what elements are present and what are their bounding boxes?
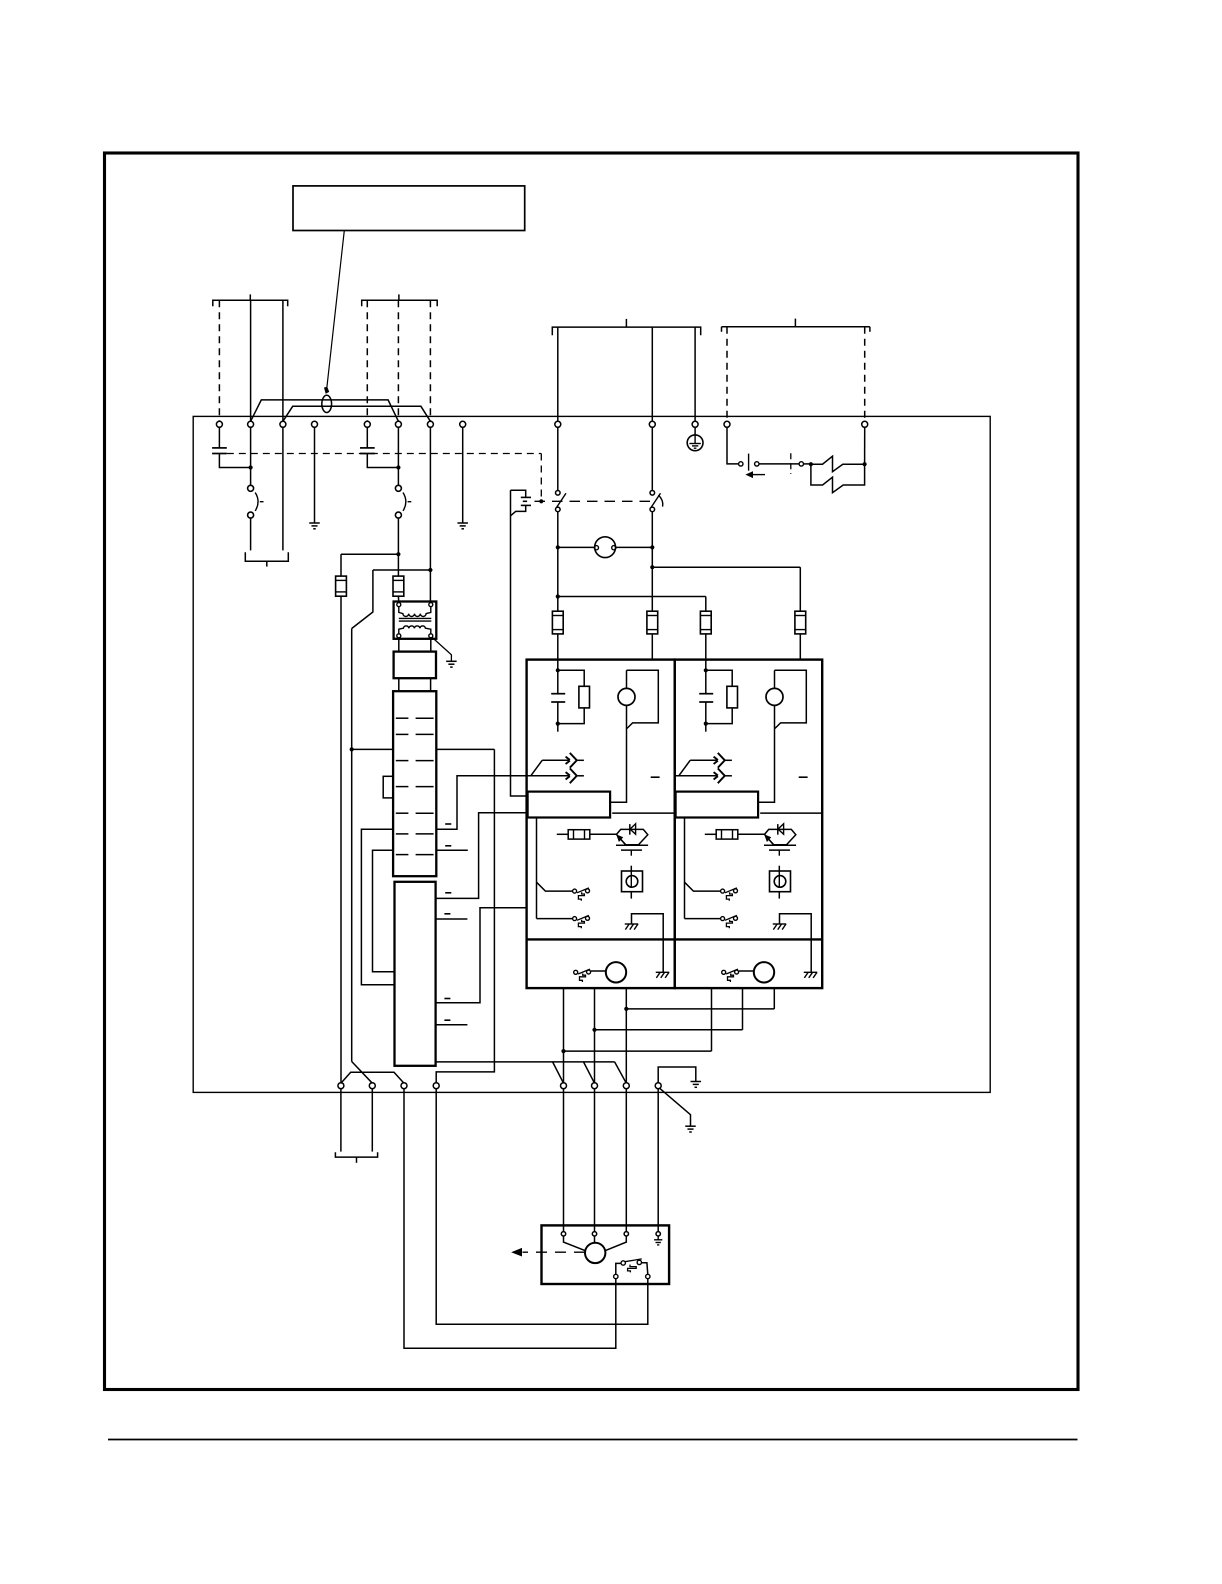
unit2 igniter fuse xyxy=(705,833,716,835)
loop wire A1 to unit edge xyxy=(436,908,527,1003)
flow switch FS xyxy=(739,462,743,466)
unit2 input node xyxy=(704,668,708,672)
connector bracket P2 (dashed unit) xyxy=(362,300,438,306)
wire to remote switch b xyxy=(436,1089,648,1325)
riser diagonal to terminal xyxy=(352,1062,373,1084)
wire P3-2 to switch xyxy=(651,427,653,490)
thermostat bulb B1 xyxy=(218,427,220,448)
unit2 capacitor C2 xyxy=(705,670,707,693)
wire P1-3 xyxy=(282,300,284,421)
harness board-to-remote xyxy=(437,1061,615,1063)
unit1 terminal strip xyxy=(528,792,611,818)
link terminal xyxy=(799,462,803,466)
node J7 xyxy=(556,545,560,549)
node J13 xyxy=(624,1007,628,1011)
control-box enclosure outline xyxy=(193,416,990,1092)
heater element EL bottom path xyxy=(811,464,865,493)
heater unit 2 box xyxy=(675,660,823,989)
harness wire B xyxy=(283,406,431,421)
bus wire H3 xyxy=(564,1050,712,1052)
wire P3-1 to switch xyxy=(557,427,559,490)
earth stub E1 xyxy=(314,427,316,523)
wire F1 down to terminal xyxy=(340,596,342,1082)
wire to remote switch a xyxy=(404,1089,616,1349)
unit2 igniter plates xyxy=(764,844,796,846)
switch S2 (contactor left) xyxy=(395,485,401,491)
remote earth xyxy=(657,1236,659,1240)
unit2 connector arrow lower xyxy=(675,775,718,777)
unit1 resistor R1 xyxy=(558,670,584,686)
connector bracket compressor xyxy=(245,552,288,561)
unit2 strip link wire xyxy=(760,812,822,814)
X1 side tab xyxy=(383,776,393,798)
branch J8 to fuse F5 xyxy=(558,596,706,598)
unit2 fan motor M2 xyxy=(754,962,774,982)
capillary tick (dashed) xyxy=(790,453,792,474)
wire P3-2 xyxy=(651,327,653,421)
unit1 lamp loop xyxy=(626,670,628,688)
wire EL to terminal xyxy=(864,427,866,464)
wire P2-2 (dashed) xyxy=(397,300,399,421)
stub wire X1-s xyxy=(436,849,468,851)
switch S3 (blade) xyxy=(556,491,561,496)
T1 primary winding xyxy=(399,607,431,617)
riser wire left xyxy=(351,629,353,1062)
tick mark t5 xyxy=(445,892,451,894)
node J2 xyxy=(396,465,400,469)
unit2 exit wires xyxy=(711,988,713,1051)
unit1 chassis ground lower xyxy=(656,971,670,973)
unit2 ground link xyxy=(780,914,812,973)
wire P1-2 xyxy=(250,300,252,421)
capillary dashed line D1 xyxy=(227,453,542,455)
sensor plug symbol xyxy=(511,490,526,497)
unit1 connector arrow lower xyxy=(527,775,570,777)
remote switch S5 xyxy=(621,1261,625,1265)
unit1 ground link xyxy=(632,914,664,973)
fuse F6 xyxy=(795,611,806,634)
wire P4-1 (dashed) xyxy=(726,327,728,422)
pump motor P xyxy=(595,537,616,558)
stub wire A1-s2 xyxy=(436,918,468,920)
wire F3 to unit1 xyxy=(557,634,559,660)
wires to compressor connector xyxy=(340,1089,342,1152)
wire P2-3 (dashed) xyxy=(429,300,431,421)
harness left pair xyxy=(341,1072,404,1083)
direction dashed arrow xyxy=(523,1251,586,1253)
tick mark t1 xyxy=(445,845,451,847)
node J8 xyxy=(556,594,560,598)
unit2 indicator lamp H2 xyxy=(766,688,783,705)
node J11 xyxy=(809,462,813,466)
unit1 exit wires xyxy=(563,988,565,1083)
unit2 igniter electrode xyxy=(765,829,796,844)
unit1 gas valve Y1 xyxy=(630,866,632,871)
wire S2 down xyxy=(397,518,399,576)
riser R2 xyxy=(436,749,494,1082)
unit2 gas valve Y2 xyxy=(778,866,780,871)
heater element EL top path xyxy=(811,456,865,472)
node J5 xyxy=(350,747,354,751)
wire F6 to unit2 xyxy=(799,634,801,660)
loop wire LU xyxy=(361,829,394,985)
unit2 chassis ground upper xyxy=(773,923,787,925)
control board A1 box xyxy=(395,882,436,1066)
unit2 control feed wire xyxy=(684,818,686,919)
unit1 fan wire xyxy=(591,970,606,972)
unit1 fan motor M1 xyxy=(606,962,626,982)
unit2 igniter diode xyxy=(777,824,779,835)
unit1 lamp down wire xyxy=(610,705,626,802)
unit1 limit switch upper xyxy=(573,889,577,893)
wire plug to unit strip xyxy=(511,490,527,796)
unit1 lower node xyxy=(556,722,560,726)
bus wire H2 xyxy=(595,1029,743,1031)
remote motor M3 xyxy=(585,1243,605,1263)
T1 core xyxy=(399,617,432,619)
node J9 xyxy=(650,545,654,549)
wire F2 to transformer xyxy=(397,596,399,602)
wire S4 down xyxy=(651,512,653,612)
connector bracket P3 (solid) xyxy=(552,327,700,335)
wire X1 to plasma loop xyxy=(436,776,526,829)
terminal strip X1 box xyxy=(393,691,436,876)
loop wire LV xyxy=(373,850,395,972)
fuse F1 xyxy=(336,576,347,596)
protective earth symbol PE xyxy=(694,427,696,435)
wire P2-1 (dashed) xyxy=(366,300,368,421)
unit2 limit switch upper xyxy=(721,889,725,893)
unit1 igniter plates xyxy=(616,844,648,846)
input terminals row (top edge) xyxy=(216,421,222,427)
earth wire G2 xyxy=(660,1088,691,1126)
switch S4 (blade) xyxy=(650,491,655,496)
callout box (empty label) xyxy=(293,186,525,231)
branch J4 left xyxy=(373,569,431,571)
branch J10 to fuse F6 xyxy=(652,566,800,568)
T1 secondary leads down xyxy=(398,638,400,652)
wire F4 to unit1 xyxy=(651,634,653,660)
tick mark t4 xyxy=(444,998,450,1000)
wires to remote unit xyxy=(563,1089,565,1232)
wire FS to link xyxy=(759,463,799,465)
T1 secondary winding xyxy=(399,626,431,634)
remote motor leads xyxy=(564,1236,586,1251)
unit2 chassis ground lower xyxy=(804,971,818,973)
unit2 fan switch xyxy=(722,970,726,974)
unit1 chassis ground upper xyxy=(625,923,639,925)
unit1 igniter diode xyxy=(629,824,631,835)
heater unit 1 box xyxy=(527,660,675,989)
unit2 resistor R2 xyxy=(706,670,732,686)
leader line from callout to cable marker xyxy=(327,231,344,388)
node J15 xyxy=(561,1049,565,1053)
tick mark t3 xyxy=(444,1019,450,1021)
page border frame xyxy=(105,153,1079,1390)
wire F5 to unit2 xyxy=(705,634,707,660)
unit1 indicator lamp H1 xyxy=(618,688,635,705)
tick mark t6 xyxy=(444,913,450,915)
bottom horizontal rule xyxy=(108,1439,1078,1441)
switch S1 (contactor left) xyxy=(248,485,254,491)
fuse F4 xyxy=(647,611,658,634)
unit1 strip link wire xyxy=(612,812,674,814)
fuse F3 xyxy=(552,611,563,634)
remote control unit box xyxy=(542,1225,670,1284)
wire P3-3 xyxy=(694,327,696,421)
M1 to terminal strip stubs xyxy=(398,678,400,691)
wire terminal6 to switch S2 xyxy=(397,427,399,485)
unit2 lamp loop xyxy=(774,670,776,688)
cable bundle marker (oval) xyxy=(322,395,332,412)
wire P4-1 to flow switch xyxy=(727,427,739,464)
T1 secondary earth lead xyxy=(432,638,451,662)
wire S1 to bracket xyxy=(250,518,252,550)
connector bracket P1 (left, solid) xyxy=(213,300,288,306)
connector bracket lower xyxy=(335,1152,377,1157)
tick mark t2 xyxy=(445,823,451,825)
branch J3 to fuse F1 xyxy=(341,553,398,555)
wire X1 to riser R2 xyxy=(436,748,494,750)
flow direction arrow xyxy=(752,474,765,476)
earth stub E2 xyxy=(462,427,464,523)
wire P3-1 xyxy=(557,327,559,421)
unit1 tick mark xyxy=(651,776,660,778)
node J14 xyxy=(592,1028,596,1032)
unit2 lamp down wire xyxy=(758,705,774,802)
dashed capillary drop xyxy=(540,454,542,502)
unit2 connector arrow upper xyxy=(690,759,717,761)
unit2 spark arrow xyxy=(769,839,774,844)
module box M1 xyxy=(394,652,436,679)
unit1 connector arrow upper xyxy=(542,759,569,761)
earth wire G1 xyxy=(658,1067,696,1083)
unit2 fan wire xyxy=(739,970,754,972)
node J12 xyxy=(863,462,867,466)
wire S3 down xyxy=(557,512,559,612)
wire P1-1 (dashed) xyxy=(218,300,220,421)
units lower section divider xyxy=(527,938,823,940)
node J10 xyxy=(650,565,654,569)
node J3 xyxy=(396,552,400,556)
stub wire A1-s xyxy=(436,1024,468,1026)
unit1 capacitor C1 xyxy=(557,670,559,693)
remote terminals xyxy=(561,1232,565,1236)
wire terminal2 to switch S1 xyxy=(250,427,252,485)
output terminals row (bottom edge) xyxy=(338,1083,344,1089)
unit1 control feed wire xyxy=(536,818,538,919)
fuse F2 xyxy=(393,576,404,596)
unit2 limit switch lower xyxy=(721,917,725,921)
unit1 igniter electrode xyxy=(617,829,648,844)
unit2 feed wire xyxy=(705,660,707,671)
thermostat bulb B2 xyxy=(366,427,368,448)
harness wire A xyxy=(251,400,399,421)
loop wire A1 to unit strip xyxy=(436,813,528,899)
diagonal to riser xyxy=(352,570,373,629)
unit1 input node xyxy=(556,668,560,672)
fuse F5 xyxy=(700,611,711,634)
dashed interlock line xyxy=(535,500,653,502)
unit1 spark arrow xyxy=(621,839,626,844)
unit2 terminal strip xyxy=(676,792,759,818)
unit1 fan switch xyxy=(574,970,578,974)
bus wire H1 xyxy=(626,1008,774,1010)
wire terminal3 down xyxy=(282,427,284,550)
unit1 feed wire xyxy=(557,660,559,671)
unit1 igniter fuse xyxy=(557,833,568,835)
T1 terminals xyxy=(397,603,401,607)
unit2 lower node xyxy=(704,722,708,726)
transformer T1 box xyxy=(394,602,437,639)
connector bracket P4 (dashed) xyxy=(722,326,870,328)
X1 terminal rungs (dashed) xyxy=(396,717,409,719)
node J4 xyxy=(428,568,432,572)
wire P4-2 (dashed) xyxy=(864,327,866,422)
unit2 tick mark xyxy=(799,776,808,778)
node J6 xyxy=(539,499,543,503)
wire terminal7 down xyxy=(429,427,431,602)
node J1 xyxy=(249,465,253,469)
unit1 limit switch lower xyxy=(573,917,577,921)
branch J5 to terminal block xyxy=(352,748,393,750)
